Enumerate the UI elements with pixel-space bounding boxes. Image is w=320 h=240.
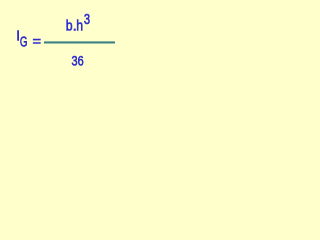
svg-text:G: G (20, 33, 28, 49)
svg-text:=: = (33, 34, 42, 50)
svg-text:3: 3 (84, 11, 90, 28)
svg-text:36: 36 (72, 53, 84, 69)
fraction bar (44, 41, 115, 43)
svg-text:h: h (76, 17, 83, 33)
background (0, 0, 128, 71)
